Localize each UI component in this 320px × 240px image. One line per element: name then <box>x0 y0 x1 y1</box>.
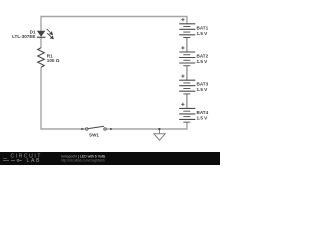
svg-text:BAT2: BAT2 <box>197 54 209 59</box>
svg-text:1.5 V: 1.5 V <box>197 115 209 120</box>
svg-text:100 Ω: 100 Ω <box>47 58 60 63</box>
svg-text:http://circuitlab.com/cnsg66sh: http://circuitlab.com/cnsg66sh6 <box>61 158 105 162</box>
svg-text:1.5 V: 1.5 V <box>197 31 209 36</box>
svg-text:BAT4: BAT4 <box>197 110 209 115</box>
svg-text:SW1: SW1 <box>89 133 99 138</box>
svg-text:LAB: LAB <box>27 158 42 164</box>
svg-text:LTL-307EE: LTL-307EE <box>12 34 35 39</box>
svg-text:1.5 V: 1.5 V <box>197 59 209 64</box>
svg-text:1.5 V: 1.5 V <box>197 87 209 92</box>
svg-text:BAT3: BAT3 <box>197 82 209 87</box>
svg-text:BAT1: BAT1 <box>197 25 209 30</box>
